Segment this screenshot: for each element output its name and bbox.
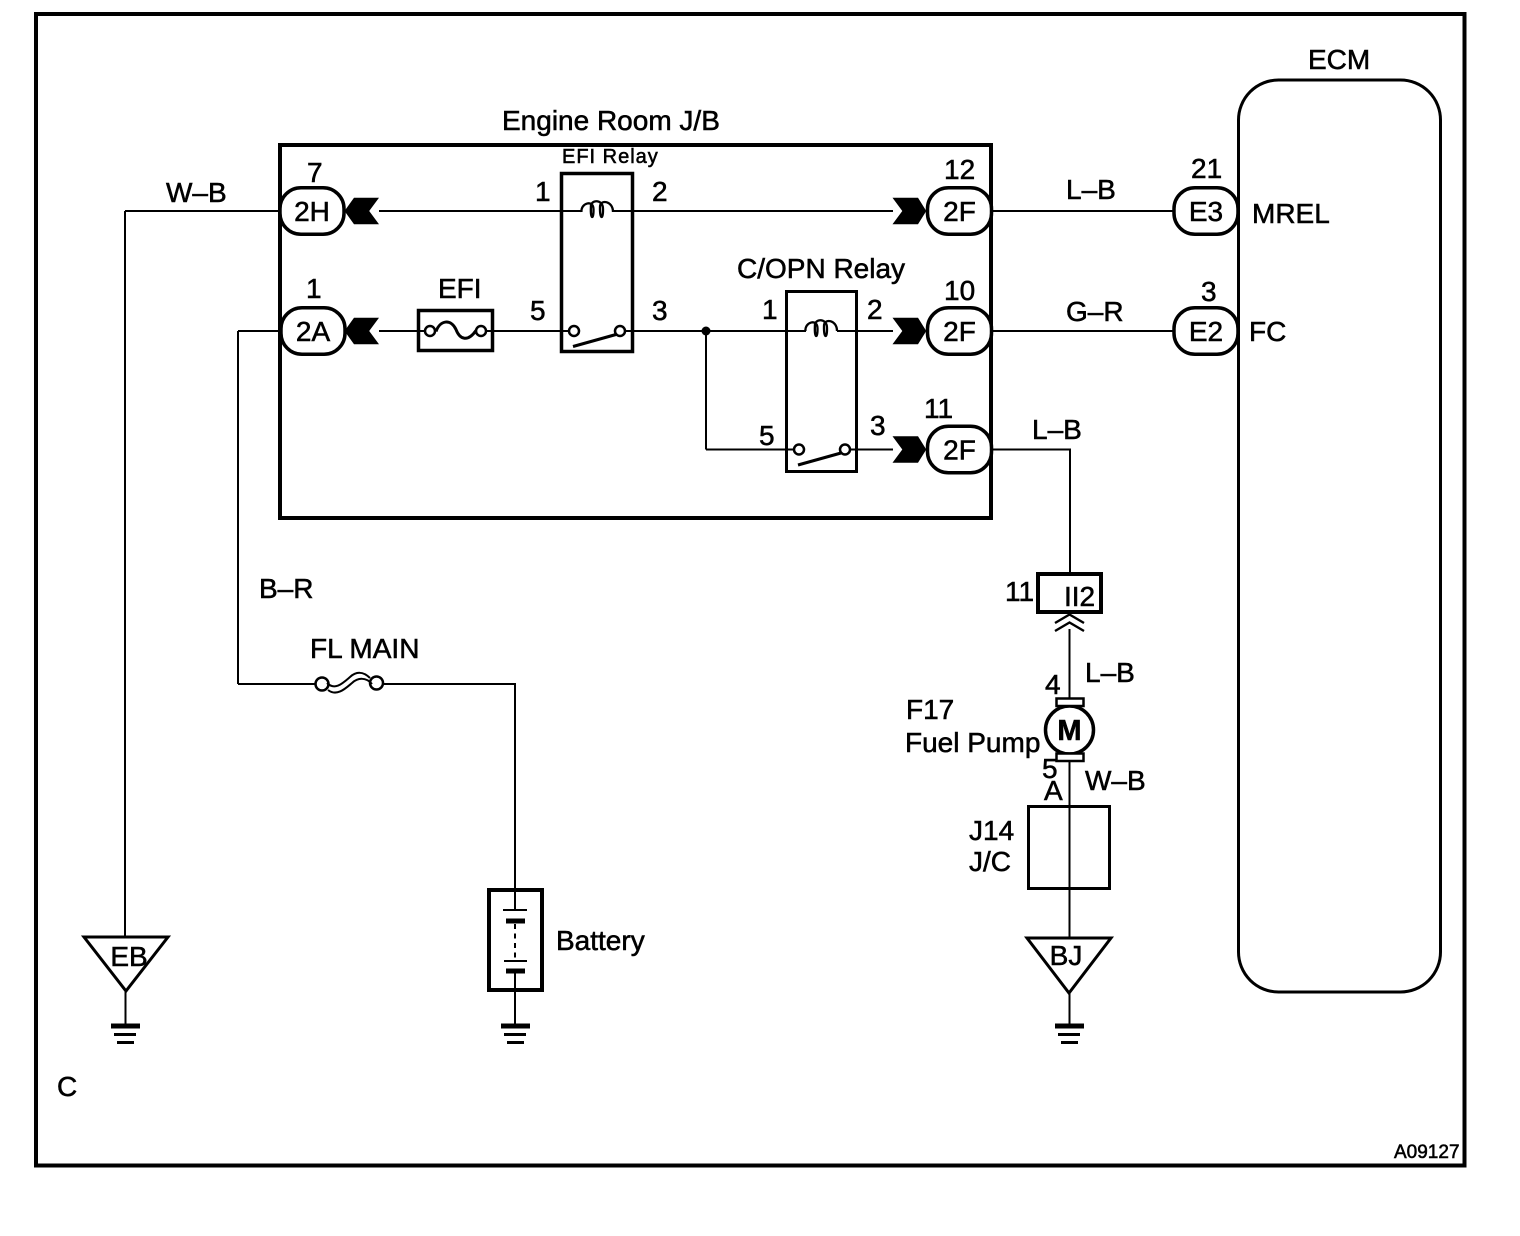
EFI relay switch: [569, 326, 579, 336]
svg-text:F17: F17: [906, 694, 954, 725]
ECM connector body U1: [1239, 80, 1441, 992]
svg-text:C/OPN Relay: C/OPN Relay: [737, 253, 905, 284]
svg-text:12: 12: [944, 154, 975, 185]
wire W-B horizontal (row 1): [125, 210, 281, 212]
svg-text:II2: II2: [1064, 581, 1095, 612]
svg-text:MREL: MREL: [1252, 198, 1330, 229]
wire through J14 to BJ: [1069, 806, 1071, 938]
svg-text:E2: E2: [1189, 316, 1223, 347]
arrow at 2F-11 (right pointing): [893, 436, 927, 462]
connector 2A: [281, 308, 345, 355]
svg-text:5: 5: [759, 420, 775, 451]
connector 2F (pin 12): [928, 188, 992, 235]
wire fuse to relay switch: [486, 330, 574, 332]
svg-text:Fuel Pump: Fuel Pump: [905, 727, 1040, 758]
svg-text:1: 1: [762, 294, 778, 325]
junction connector J14 box: [1029, 807, 1110, 889]
svg-text:2: 2: [867, 294, 883, 325]
C/OPN relay switch: [794, 445, 804, 455]
arrow at 2F-10 (right pointing): [893, 318, 927, 344]
ground symbol battery: [501, 1024, 530, 1029]
arrow at 2F-12 (right pointing): [893, 198, 927, 224]
svg-text:M: M: [1057, 715, 1081, 747]
arrow at 2H (left pointing): [345, 198, 380, 224]
svg-text:11: 11: [1005, 576, 1034, 607]
svg-text:3: 3: [652, 295, 668, 326]
svg-text:21: 21: [1191, 153, 1222, 184]
wire B-R vertical: [237, 331, 239, 684]
wire L-B row3: [991, 450, 1070, 574]
ground triangle EB: [84, 937, 168, 991]
svg-text:2F: 2F: [943, 316, 976, 347]
ground symbol EB: [111, 1024, 140, 1029]
battery BAT1: [489, 890, 542, 990]
svg-text:Battery: Battery: [556, 925, 645, 956]
svg-text:Engine Room J/B: Engine Room J/B: [502, 105, 720, 136]
svg-text:10: 10: [944, 275, 975, 306]
wire row2 relay to C/OPN: [625, 330, 806, 332]
svg-text:2F: 2F: [943, 196, 976, 227]
wire to fusible link: [238, 683, 316, 685]
svg-text:2H: 2H: [294, 196, 330, 227]
junction node: [702, 327, 711, 336]
svg-text:2: 2: [652, 176, 668, 207]
svg-text:EFI: EFI: [438, 273, 482, 304]
svg-text:2F: 2F: [943, 435, 976, 466]
Engine Room J/B box: [280, 145, 991, 518]
svg-text:EB: EB: [110, 941, 147, 972]
arrow at 2A (left pointing): [345, 318, 380, 344]
C/OPN relay coil: [805, 320, 837, 336]
wire pump to J14: [1069, 761, 1071, 805]
svg-text:A09127: A09127: [1394, 1142, 1460, 1163]
svg-text:3: 3: [870, 410, 886, 441]
wire row1 from coil to 2F arrow: [613, 210, 893, 212]
ground symbol BJ: [1055, 1024, 1084, 1029]
svg-text:G–R: G–R: [1066, 296, 1124, 327]
wire BJ to ground: [1069, 993, 1071, 1024]
svg-text:L–B: L–B: [1032, 414, 1082, 445]
connector E3: [1174, 188, 1238, 235]
wire row2 to fuse: [379, 330, 430, 332]
svg-text:1: 1: [535, 176, 551, 207]
svg-text:L–B: L–B: [1066, 174, 1116, 205]
wire W-B drop to EB: [124, 211, 126, 937]
svg-text:W–B: W–B: [1085, 765, 1146, 796]
wire 2A stub to B-R corner: [238, 330, 282, 332]
svg-text:11: 11: [924, 393, 953, 424]
svg-text:J14: J14: [969, 815, 1014, 846]
svg-text:3: 3: [1201, 276, 1217, 307]
connector 2F (pin 11): [928, 426, 992, 473]
C/OPN relay box: [787, 292, 857, 472]
svg-text:1: 1: [306, 273, 322, 304]
connector II2 box: [1038, 574, 1101, 612]
svg-text:BJ: BJ: [1050, 940, 1083, 971]
svg-text:E3: E3: [1189, 196, 1223, 227]
fuse EFI box: [419, 311, 493, 351]
connector 2F (pin 10): [928, 308, 992, 355]
wire row1 to EFI relay: [379, 210, 582, 212]
svg-text:B–R: B–R: [259, 573, 313, 604]
svg-text:2A: 2A: [296, 316, 331, 347]
connector E2: [1174, 308, 1238, 355]
svg-text:C: C: [57, 1071, 77, 1102]
svg-text:4: 4: [1045, 669, 1061, 700]
connector 2H: [280, 188, 344, 235]
EFI relay coil: [581, 201, 613, 217]
svg-text:J/C: J/C: [969, 846, 1011, 877]
wire L-B row1: [991, 210, 1174, 212]
wire G-R row2: [991, 330, 1174, 332]
ground triangle BJ: [1027, 938, 1111, 993]
wire row3 to C/OPN switch: [706, 449, 799, 451]
wire junction drop: [705, 331, 707, 450]
svg-text:FC: FC: [1249, 316, 1286, 347]
wire row3 switch to arrow: [850, 449, 893, 451]
svg-text:7: 7: [307, 157, 323, 188]
svg-text:5: 5: [530, 295, 546, 326]
EFI relay box: [562, 174, 633, 352]
wire II2 to pump: [1069, 629, 1071, 700]
svg-text:A: A: [1044, 775, 1063, 806]
fuse element: [425, 326, 435, 336]
chevrons below II2: [1055, 615, 1084, 624]
svg-text:EFI Relay: EFI Relay: [562, 146, 659, 168]
svg-text:FL MAIN: FL MAIN: [310, 633, 419, 664]
svg-text:W–B: W–B: [166, 177, 227, 208]
wire fusible link to battery: [383, 684, 515, 888]
fusible link FL MAIN: [316, 678, 329, 691]
svg-text:L–B: L–B: [1085, 657, 1135, 688]
wire battery to ground: [514, 971, 516, 1024]
svg-text:ECM: ECM: [1308, 44, 1370, 75]
wire row2 coil to arrow: [837, 330, 893, 332]
fuel pump motor M1: [1046, 706, 1094, 754]
wire EB to ground: [125, 991, 127, 1024]
